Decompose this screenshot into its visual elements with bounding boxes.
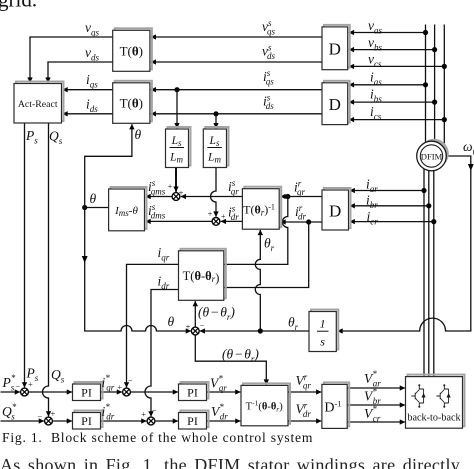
svg-text:+: + bbox=[179, 187, 184, 197]
wire theta_r from 1/s to summer bbox=[200, 330, 309, 332]
svg-text:−: − bbox=[37, 411, 42, 421]
svg-text:ibr: ibr bbox=[366, 193, 378, 211]
svg-text:ias: ias bbox=[370, 70, 382, 88]
svg-text:i*qr: i*qr bbox=[102, 373, 115, 393]
wire i_ds : T(theta)2 to Act-React bbox=[63, 113, 113, 115]
multiplier M2 i_dms bbox=[212, 218, 220, 226]
node v_bs bbox=[432, 47, 437, 52]
node v_cs bbox=[442, 64, 447, 69]
svg-text:+: + bbox=[208, 208, 213, 218]
wire i_qr* : PI q1 to Sq2 bbox=[101, 391, 122, 393]
svg-text:D: D bbox=[329, 40, 341, 59]
IGBT leg icon 1 bbox=[411, 384, 425, 408]
svg-text:θ: θ bbox=[135, 127, 142, 142]
node i_as bbox=[423, 82, 428, 87]
wire i_br tap to D3 bbox=[350, 205, 429, 207]
svg-text:isds: isds bbox=[263, 93, 274, 112]
IGBT leg icon 2 bbox=[436, 384, 450, 408]
wire rotor bus phase a bbox=[423, 169, 425, 377]
wire rotor bus phase c bbox=[433, 170, 435, 377]
wire theta_r up into T(theta_r)^-1, hops over two lines bbox=[255, 230, 260, 331]
svg-text:θr: θr bbox=[288, 315, 299, 333]
wire V_ar* : D^-1 to back-to-back bbox=[347, 387, 405, 389]
svg-text:(θ−θr): (θ−θr) bbox=[198, 305, 235, 323]
wire i_ar tap to D3 bbox=[350, 190, 424, 192]
svg-text:isdms: isdms bbox=[148, 202, 166, 221]
svg-text:PI: PI bbox=[81, 386, 92, 400]
node i_ar bbox=[421, 188, 426, 193]
wire i_dr : T(theta-theta_r) to summer Sd2, hops q-row bbox=[145, 290, 179, 417]
wire i_qs : T(theta)2 to Act-React bbox=[63, 89, 113, 91]
svg-text:icr: icr bbox=[367, 209, 379, 227]
svg-text:+: + bbox=[221, 211, 226, 221]
svg-text:V*dr: V*dr bbox=[211, 402, 228, 422]
wire V_dr^r : T^-1 to D^-1 bbox=[288, 420, 321, 422]
svg-text:T(θ): T(θ) bbox=[120, 96, 143, 111]
wire V_qr^r : T^-1 to D^-1 bbox=[288, 391, 321, 393]
svg-text:ibs: ibs bbox=[370, 87, 382, 105]
block 1/s integrator bbox=[309, 310, 338, 352]
svg-text:D: D bbox=[329, 95, 341, 114]
node i_dr^r branch bbox=[306, 219, 311, 224]
wire i_qr^r : D3 to T(theta_r)^-1 bbox=[281, 196, 323, 198]
wire Sd2 to PI d2 bbox=[155, 420, 178, 422]
wire v_qs : T(theta)1 to Act-React bbox=[30, 37, 113, 83]
svg-text:−: − bbox=[128, 375, 133, 385]
block T(theta) lower bbox=[113, 81, 152, 124]
wire i_dr^r : D3 to T(theta_r)^-1 bbox=[281, 221, 323, 223]
svg-text:grid.: grid. bbox=[0, 0, 37, 12]
wire Ls/Lm1 to multiplier M1 bbox=[175, 168, 177, 192]
svg-text:back-to-back: back-to-back bbox=[407, 413, 461, 424]
svg-text:i*dr: i*dr bbox=[102, 402, 115, 422]
wire i_cr tap to D3 bbox=[350, 221, 434, 223]
block D3 rotor current transform bbox=[322, 188, 351, 230]
svg-text:vcs: vcs bbox=[368, 52, 382, 70]
svg-text:idr: idr bbox=[158, 274, 170, 292]
block T(theta-theta_r) bbox=[179, 249, 226, 300]
wire theta down to summer, hops over i_qr and i_dr verticals bbox=[85, 208, 191, 332]
node i_br bbox=[426, 203, 431, 208]
wire i_dr^s : T(theta_r)^-1 to M2 bbox=[221, 220, 243, 222]
svg-text:P*s: P*s bbox=[2, 373, 16, 393]
svg-text:ids: ids bbox=[86, 97, 98, 115]
svg-text:isqms: isqms bbox=[148, 178, 166, 197]
svg-text:isqs: isqs bbox=[263, 68, 274, 87]
svg-text:θr: θr bbox=[264, 236, 275, 254]
wire Q_s down from Act-React, hops q-row bbox=[43, 123, 49, 416]
svg-text:Vrdr: Vrdr bbox=[296, 401, 312, 420]
block D^-1 bbox=[322, 382, 349, 428]
wire branch to Ls/Lm 1 bbox=[176, 90, 178, 129]
wire V_dr* : PI d2 to T^-1(theta-theta_r) bbox=[207, 420, 241, 422]
node i_bs bbox=[432, 100, 437, 105]
wire (theta-theta_r) summer up to T(theta-theta_r) bbox=[194, 301, 196, 327]
wire i_as tap to D2 bbox=[349, 84, 426, 86]
wire Sq1 to PI q1 bbox=[28, 391, 72, 393]
arrowhead mid theta wire bbox=[82, 256, 88, 263]
wire Sd1 to PI d1 bbox=[52, 420, 72, 422]
svg-text:+: + bbox=[168, 181, 173, 191]
svg-text:Vrqr: Vrqr bbox=[296, 372, 312, 391]
wire v_bs tap to D1 bbox=[349, 49, 435, 51]
wire i_ds^s : D2 to T(theta)2 bbox=[151, 113, 322, 115]
wire rotor bus phase b bbox=[428, 170, 430, 377]
svg-text:+: + bbox=[186, 322, 191, 332]
block Act-React bbox=[14, 82, 64, 124]
svg-text:+: + bbox=[51, 409, 56, 419]
caption Fig.1 bbox=[2, 430, 313, 446]
block D2 current transform bbox=[322, 81, 350, 125]
svg-text:(θ−θr): (θ−θr) bbox=[222, 347, 259, 365]
wire v_ds^s : D1 to T(theta)1 bbox=[151, 61, 322, 63]
svg-text:vas: vas bbox=[368, 18, 383, 36]
svg-text:V*cr: V*cr bbox=[364, 404, 381, 424]
node junction i_qs^s branch bbox=[174, 87, 179, 92]
svg-text:ics: ics bbox=[370, 104, 382, 122]
node theta tee bbox=[82, 205, 87, 210]
wire omega_r from DFIM down to 1/s with bus hop bbox=[338, 156, 471, 331]
wire (theta-theta_r) summer down to T^-1(theta-theta_r) bbox=[195, 335, 266, 385]
arrowhead mid omega_r wire bbox=[468, 164, 474, 171]
svg-text:−: − bbox=[200, 321, 205, 331]
block D1 voltage transform bbox=[322, 25, 350, 70]
svg-text:DFIM: DFIM bbox=[421, 152, 443, 162]
wire i_dms^s : M2 to I_ms block bbox=[146, 220, 213, 222]
summer S1 (theta - theta_r) bbox=[191, 327, 199, 335]
svg-text:PI: PI bbox=[187, 386, 198, 400]
machine DFIM bbox=[417, 139, 449, 171]
block I_ms-theta estimator bbox=[109, 187, 147, 231]
svg-text:Ps: Ps bbox=[25, 128, 38, 146]
svg-text:vsds: vsds bbox=[262, 43, 276, 62]
wire theta up into T(theta)2 bbox=[85, 124, 132, 207]
svg-text:+: + bbox=[28, 379, 33, 389]
svg-text:isdr: isdr bbox=[228, 204, 239, 223]
svg-text:s: s bbox=[320, 335, 325, 349]
svg-text:−: − bbox=[152, 405, 157, 415]
wire Sq2 to PI q2 bbox=[130, 391, 178, 393]
svg-text:vqs: vqs bbox=[85, 20, 100, 38]
wire i_qr : T(theta-theta_r) to summer Sq2 bbox=[127, 264, 179, 387]
svg-text:irdr: irdr bbox=[295, 203, 306, 222]
wire P_s down from Act-React bbox=[24, 123, 26, 387]
wire v_qs^s : D1 to T(theta)1 bbox=[151, 36, 322, 38]
svg-text:iqs: iqs bbox=[86, 72, 98, 90]
wire i_dr^r branch down to T(theta-theta_r) bbox=[224, 222, 308, 288]
wire i_bs tap to D2 bbox=[349, 101, 435, 103]
block Ls/Lm 1 bbox=[166, 127, 191, 168]
svg-text:PI: PI bbox=[187, 414, 198, 428]
svg-text:Qs: Qs bbox=[49, 129, 63, 147]
svg-text:Qs: Qs bbox=[51, 367, 65, 385]
svg-text:1: 1 bbox=[320, 317, 326, 331]
svg-text:V*qr: V*qr bbox=[210, 374, 227, 394]
block PI q2 bbox=[179, 382, 209, 401]
block T^-1(theta-theta_r) bbox=[241, 383, 290, 425]
wire v_as tap to D1 bbox=[349, 32, 426, 34]
svg-text:irqr: irqr bbox=[294, 179, 305, 198]
svg-text:+: + bbox=[141, 409, 146, 419]
block back-to-back converter bbox=[406, 375, 465, 429]
wire V_br* : D^-1 to back-to-back bbox=[347, 404, 405, 406]
node i_qr^r branch bbox=[285, 194, 290, 199]
svg-text:PI: PI bbox=[81, 414, 92, 428]
multiplier M1 i_qms bbox=[172, 193, 180, 201]
svg-text:iar: iar bbox=[366, 177, 378, 195]
node theta_r tee bbox=[258, 328, 263, 333]
wire v_cs tap to D1 bbox=[349, 65, 444, 67]
summer Sq1 P_s bbox=[21, 388, 29, 396]
wire i_qs^s : D2 to T(theta)2 bbox=[151, 89, 322, 91]
svg-text:θ: θ bbox=[90, 191, 97, 206]
svg-text:D: D bbox=[329, 202, 341, 221]
svg-text:Q*s: Q*s bbox=[2, 402, 17, 422]
wire stator bus phase b bbox=[434, 25, 436, 143]
wire stator bus phase a bbox=[425, 25, 427, 144]
node junction i_ds^s branch bbox=[213, 111, 218, 116]
wire Q_s* reference bbox=[1, 420, 44, 422]
wire theta from I_ms block tee bbox=[85, 207, 109, 209]
wire i_qr^r branch down to T(theta-theta_r), hops over i_dr^r line bbox=[224, 197, 287, 265]
svg-text:T(θ): T(θ) bbox=[120, 44, 143, 59]
block T(theta) upper bbox=[113, 28, 152, 71]
node v_as bbox=[423, 30, 428, 35]
node i_cs bbox=[442, 117, 447, 122]
block Ls/Lm 2 bbox=[203, 127, 228, 168]
svg-text:vsqs: vsqs bbox=[262, 18, 276, 37]
wire V_cr* : D^-1 to back-to-back bbox=[347, 421, 405, 423]
summer Sq2 i_qr bbox=[123, 388, 131, 396]
wire Ls/Lm2 to multiplier M2, hops over i_qr^s line bbox=[211, 168, 217, 217]
svg-text:+: + bbox=[117, 382, 122, 392]
svg-text:θ: θ bbox=[168, 314, 175, 329]
svg-text:ωr: ωr bbox=[463, 139, 474, 157]
block PI d1 bbox=[73, 411, 103, 430]
node i_cr bbox=[431, 219, 436, 224]
wire i_qr^s : T(theta_r)^-1 to M1 bbox=[181, 196, 243, 198]
wire i_qms^s : M1 to I_ms block bbox=[146, 196, 173, 198]
svg-text:−: − bbox=[15, 381, 20, 391]
svg-text:iqr: iqr bbox=[158, 245, 170, 263]
wire v_ds : T(theta)1 to Act-React bbox=[48, 62, 113, 83]
wire P_s* reference bbox=[1, 391, 20, 393]
summer Sd1 Q_s bbox=[45, 417, 53, 425]
wire i_cs tap to D2 bbox=[349, 119, 444, 121]
wire branch to Ls/Lm 2 bbox=[215, 114, 217, 128]
wire i_dr* : PI d1 to Sd2 bbox=[101, 420, 147, 422]
svg-text:vds: vds bbox=[85, 45, 100, 63]
clipped body text at bottom bbox=[0, 455, 474, 469]
wire V_qr* : PI q2 to T^-1(theta-theta_r) bbox=[207, 391, 241, 393]
summer Sd2 i_dr bbox=[147, 417, 155, 425]
wire stator bus phase c bbox=[443, 25, 445, 151]
block PI d2 bbox=[179, 411, 209, 430]
svg-text:Act-React: Act-React bbox=[18, 99, 58, 110]
block PI q1 bbox=[73, 382, 103, 401]
svg-text:vbs: vbs bbox=[368, 35, 383, 53]
svg-text:isqr: isqr bbox=[228, 178, 239, 197]
block T(theta_r)^-1 bbox=[242, 187, 281, 230]
